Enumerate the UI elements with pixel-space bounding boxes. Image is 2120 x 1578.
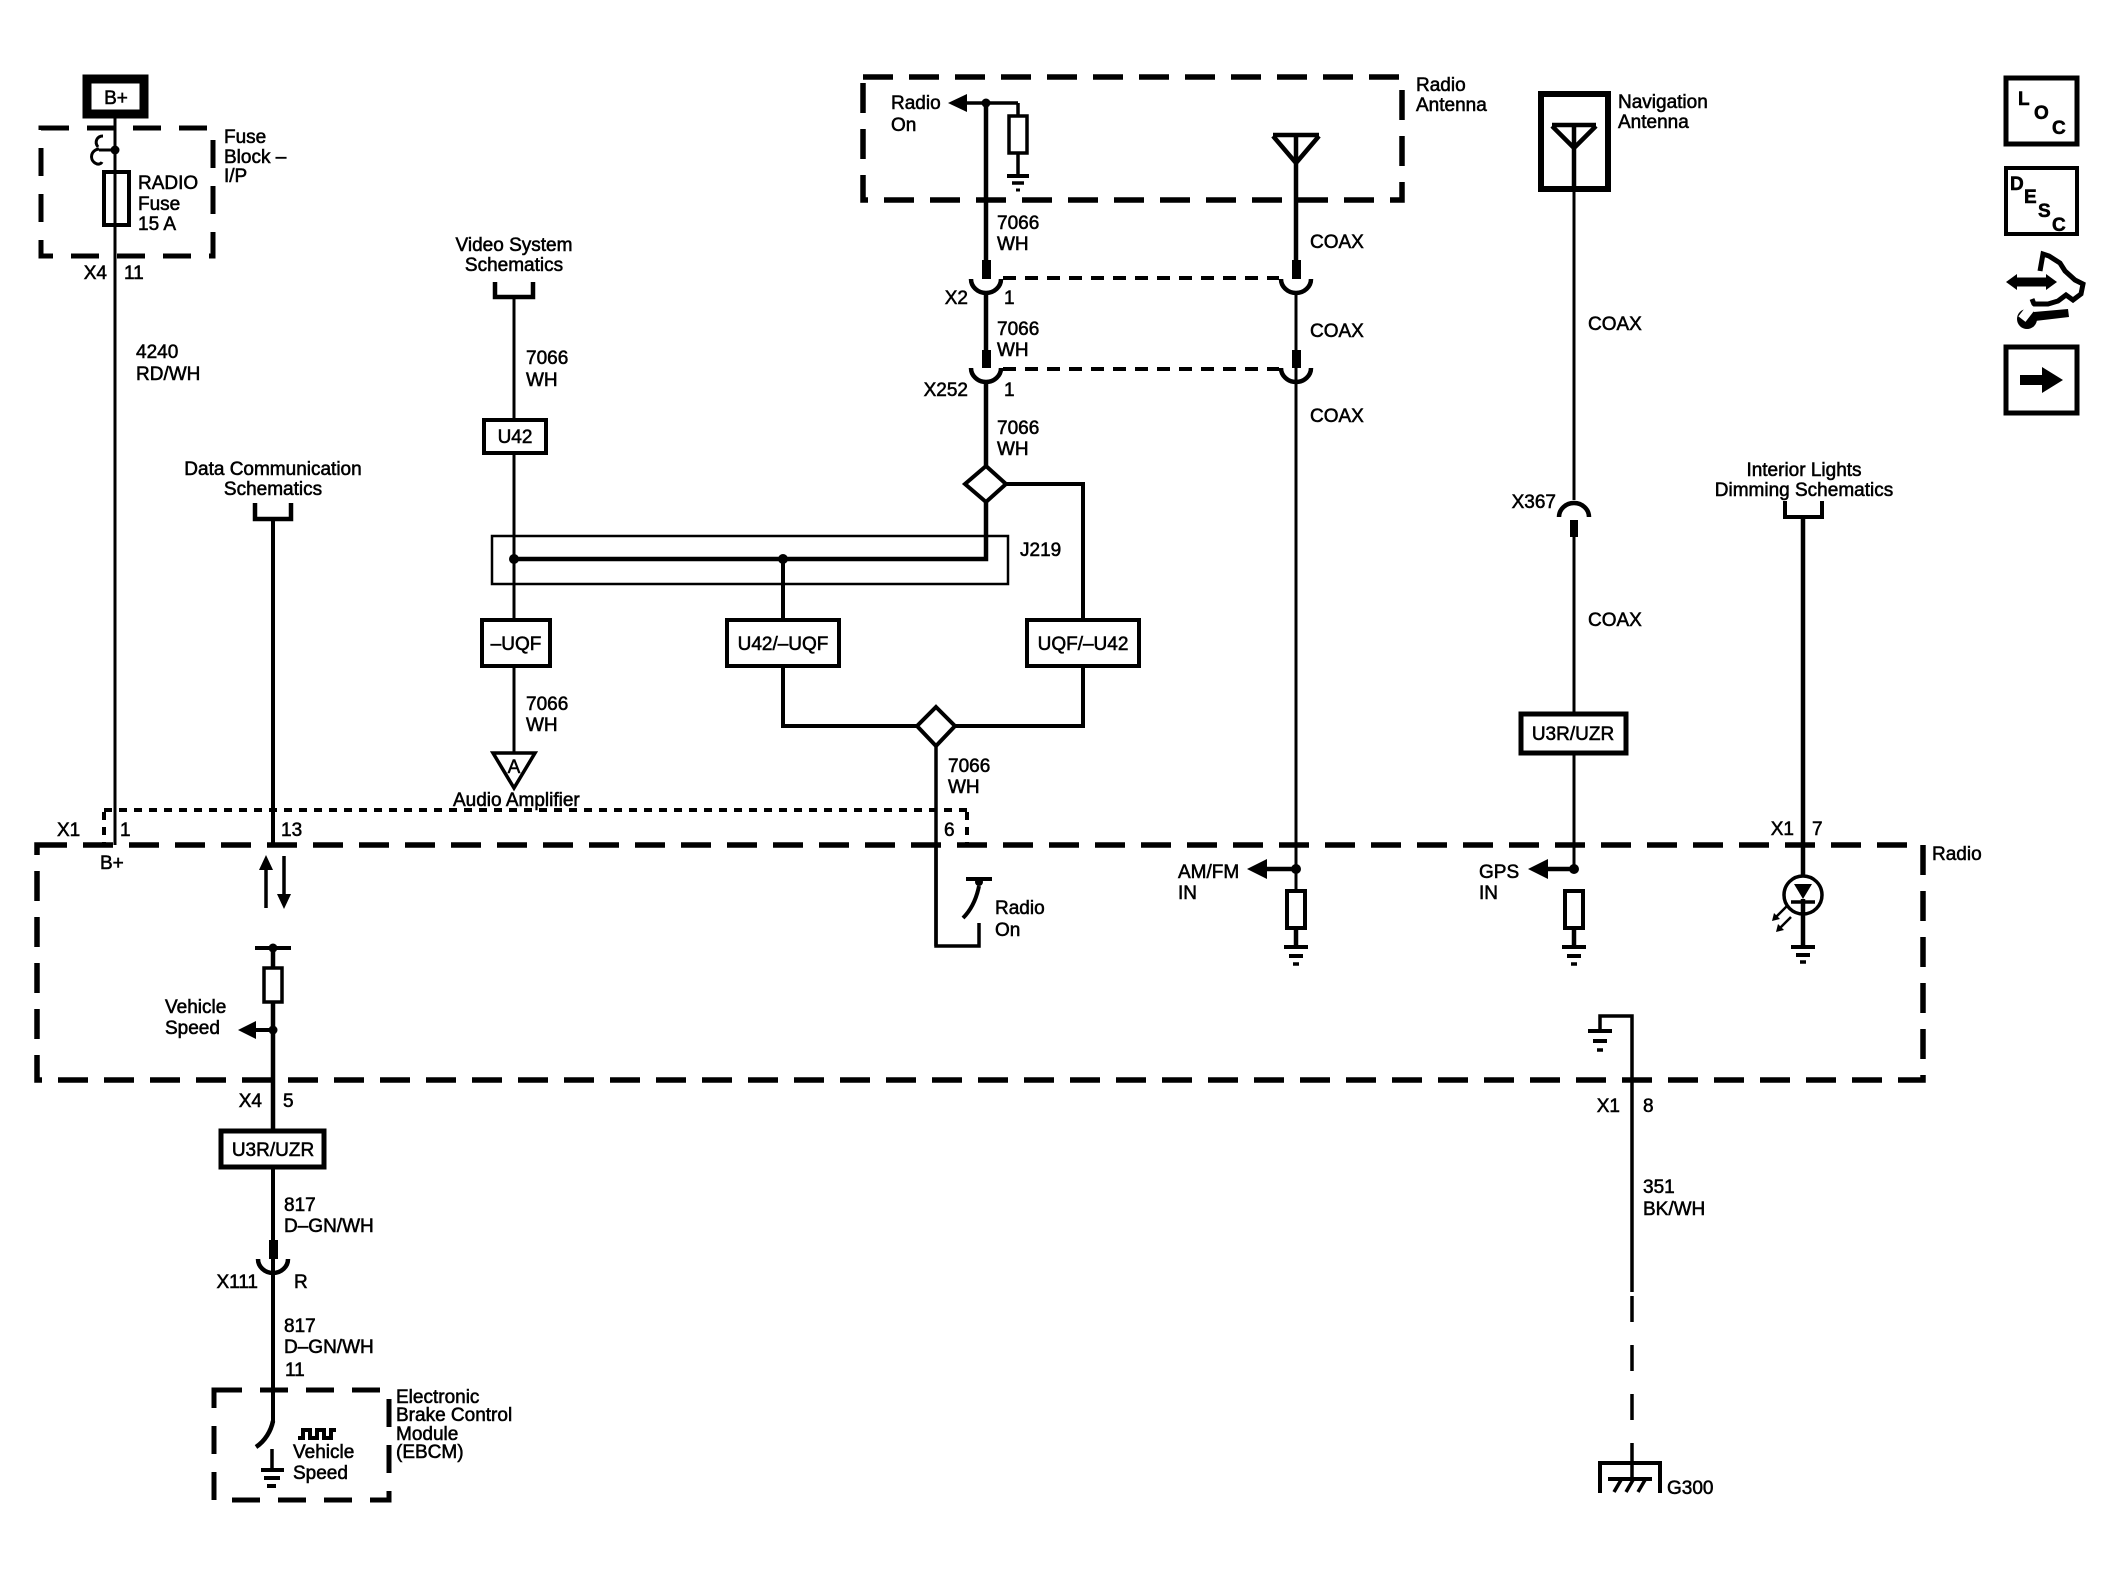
connector X2 (coax pin+socket) bbox=[1281, 260, 1311, 293]
svg-text:COAX: COAX bbox=[1588, 314, 1642, 335]
svg-text:Schematics: Schematics bbox=[465, 255, 563, 276]
svg-text:X2: X2 bbox=[945, 288, 968, 309]
vehicle speed source bar bbox=[255, 944, 291, 969]
svg-text:C: C bbox=[2052, 118, 2066, 139]
wire label 817 D-GN/WH (2) bbox=[284, 1316, 374, 1358]
wire dimming to radio bbox=[1801, 517, 1806, 876]
vehicle speed label (radio) bbox=[165, 997, 226, 1039]
svg-text:C: C bbox=[2052, 215, 2066, 236]
radio on label (antenna box) bbox=[891, 93, 941, 136]
svg-text:S: S bbox=[2038, 201, 2051, 222]
radio-on switch (radio) bbox=[936, 845, 992, 946]
connector X367 bbox=[1512, 492, 1589, 537]
radio dashed box bbox=[37, 845, 1923, 1080]
svg-text:Antenna: Antenna bbox=[1416, 95, 1487, 116]
svg-text:RD/WH: RD/WH bbox=[136, 364, 200, 385]
svg-text:U3R/UZR: U3R/UZR bbox=[1532, 724, 1614, 745]
junction dot at fuse bbox=[111, 146, 120, 155]
wire X2 to X252 bbox=[984, 293, 989, 351]
svg-text:X1: X1 bbox=[1771, 819, 1794, 840]
antenna mast symbol (radio) bbox=[1273, 135, 1319, 260]
radio internal ground bbox=[1588, 1016, 1632, 1080]
junction dot antenna bbox=[982, 99, 991, 108]
ground (EBCM) bbox=[261, 1449, 284, 1486]
wire video to J219 bbox=[513, 297, 516, 620]
radio on label (radio) bbox=[995, 898, 1045, 941]
pin labels X4 5 (radio bottom) bbox=[239, 1091, 294, 1112]
AM/FM IN arrow bbox=[1247, 859, 1301, 879]
icon data link connector (arrows, car, wrench) bbox=[2006, 254, 2083, 329]
svg-text:Navigation: Navigation bbox=[1618, 92, 1708, 113]
svg-text:Audio Amplifier: Audio Amplifier bbox=[453, 790, 580, 811]
wire U3R/UZR to GPS bbox=[1573, 753, 1576, 869]
svg-text:7: 7 bbox=[1812, 819, 1823, 840]
wire resistor to pin X4-5 bbox=[271, 1002, 276, 1131]
svg-text:D–GN/WH: D–GN/WH bbox=[284, 1337, 374, 1358]
svg-text:1: 1 bbox=[120, 820, 131, 841]
wire diamond2 down to radio pin 6 bbox=[934, 746, 938, 946]
U3R/UZR box (speed) bbox=[221, 1131, 324, 1167]
connector X111 bbox=[216, 1240, 307, 1293]
svg-text:E: E bbox=[2024, 187, 2037, 208]
vehicle speed junction + arrow bbox=[238, 1021, 278, 1039]
svg-text:Fuse: Fuse bbox=[224, 127, 266, 148]
svg-text:7066: 7066 bbox=[526, 694, 568, 715]
off-page ref Data Communication Schematics bbox=[184, 459, 361, 519]
AM/FM ground bbox=[1284, 928, 1308, 964]
audio amplifier dotted boundary bbox=[104, 810, 967, 845]
wire label 7066 WH (pin6) bbox=[948, 756, 990, 798]
pin labels X252 1 bbox=[924, 380, 1015, 401]
svg-text:X4: X4 bbox=[239, 1091, 263, 1112]
svg-text:7066: 7066 bbox=[948, 756, 990, 777]
wire label 7066 WH (2) bbox=[997, 319, 1039, 361]
svg-text:D: D bbox=[2010, 174, 2024, 195]
svg-text:Radio: Radio bbox=[891, 93, 941, 114]
resistor (antenna) bbox=[1009, 103, 1027, 174]
svg-text:Vehicle: Vehicle bbox=[293, 1442, 354, 1463]
fuse block internal clip symbol bbox=[92, 136, 115, 164]
svg-text:UQF/–U42: UQF/–U42 bbox=[1038, 634, 1129, 655]
svg-text:BK/WH: BK/WH bbox=[1643, 1199, 1705, 1220]
dashed ground wire bbox=[1630, 1296, 1634, 1452]
wire X252 to splice diamond bbox=[984, 382, 989, 466]
svg-text:Radio: Radio bbox=[1416, 75, 1466, 96]
navigation antenna box bbox=[1541, 94, 1608, 189]
G300 ground bbox=[1600, 1463, 1713, 1499]
B+ terminal box bbox=[87, 79, 144, 114]
svg-text:7066: 7066 bbox=[997, 418, 1039, 439]
svg-text:COAX: COAX bbox=[1310, 321, 1364, 342]
ground (antenna) bbox=[1007, 176, 1029, 190]
wire label 7066 WH bbox=[997, 213, 1039, 255]
svg-text:GPS: GPS bbox=[1479, 862, 1519, 883]
fuse block I/P dashed box bbox=[41, 128, 213, 256]
dashed connector line X2 bbox=[1003, 276, 1279, 280]
wire label 4240 RD/WH bbox=[136, 342, 200, 385]
svg-text:1: 1 bbox=[1004, 380, 1015, 401]
svg-text:4240: 4240 bbox=[136, 342, 178, 363]
dashed connector line X252 bbox=[1003, 367, 1279, 371]
svg-text:Radio: Radio bbox=[995, 898, 1045, 919]
U3R/UZR box (nav) bbox=[1521, 714, 1626, 753]
svg-text:Speed: Speed bbox=[165, 1018, 220, 1039]
AM/FM resistor bbox=[1287, 891, 1305, 928]
svg-text:Brake Control: Brake Control bbox=[396, 1405, 512, 1426]
U42 box bbox=[484, 420, 546, 453]
svg-text:Dimming Schematics: Dimming Schematics bbox=[1715, 480, 1893, 501]
wire label 7066 WH (3) bbox=[997, 418, 1039, 460]
svg-text:Vehicle: Vehicle bbox=[165, 997, 226, 1018]
U42/-UQF box bbox=[727, 620, 839, 666]
svg-text:IN: IN bbox=[1479, 883, 1498, 904]
svg-text:X1: X1 bbox=[57, 820, 80, 841]
radio antenna dashed box bbox=[863, 77, 1402, 200]
-UQF box bbox=[482, 620, 550, 666]
connector X252 (coax pin+socket) bbox=[1281, 350, 1311, 382]
LED dimming input bbox=[1784, 876, 1822, 945]
svg-text:1: 1 bbox=[1004, 288, 1015, 309]
svg-text:I/P: I/P bbox=[224, 166, 247, 187]
pulse waveform icon bbox=[298, 1430, 336, 1438]
pin labels X1 8 bbox=[1597, 1096, 1654, 1117]
GPS IN label bbox=[1479, 862, 1519, 904]
UQF/-U42 box bbox=[1027, 620, 1139, 666]
svg-text:Radio: Radio bbox=[1932, 844, 1982, 865]
off-page ref Video System Schematics bbox=[456, 235, 573, 297]
svg-text:11: 11 bbox=[124, 263, 144, 284]
LED ground bbox=[1791, 947, 1815, 962]
svg-text:AM/FM: AM/FM bbox=[1178, 862, 1239, 883]
svg-text:A: A bbox=[508, 757, 521, 778]
GPS IN arrow bbox=[1528, 859, 1579, 879]
fuse RADIO 15A bbox=[104, 172, 198, 235]
data bidirectional arrows bbox=[259, 855, 291, 909]
svg-text:–UQF: –UQF bbox=[491, 634, 542, 655]
svg-text:U3R/UZR: U3R/UZR bbox=[232, 1140, 314, 1161]
svg-text:WH: WH bbox=[526, 370, 558, 391]
wire data comm to radio bbox=[271, 518, 275, 845]
radio antenna label bbox=[1416, 75, 1487, 116]
svg-text:13: 13 bbox=[281, 820, 302, 841]
svg-text:11: 11 bbox=[285, 1360, 305, 1381]
svg-text:Data Communication: Data Communication bbox=[184, 459, 361, 480]
svg-text:U42/–UQF: U42/–UQF bbox=[738, 634, 829, 655]
connector X2 (left pin+socket) bbox=[971, 260, 1001, 293]
pin X4 11 (fuse block) bbox=[84, 263, 144, 284]
EBCM label bbox=[396, 1387, 512, 1463]
svg-text:RADIO: RADIO bbox=[138, 173, 198, 194]
splice diamond J219 top bbox=[965, 466, 1006, 502]
connector X252 (left pin+socket) bbox=[971, 350, 1001, 382]
svg-text:D–GN/WH: D–GN/WH bbox=[284, 1216, 374, 1237]
svg-text:6: 6 bbox=[944, 820, 955, 841]
svg-text:L: L bbox=[2018, 89, 2030, 110]
AM/FM IN label bbox=[1178, 862, 1239, 904]
wire radio-on down bbox=[984, 103, 989, 261]
svg-text:7066: 7066 bbox=[997, 319, 1039, 340]
svg-text:X4: X4 bbox=[84, 263, 108, 284]
wire U3R/UZR to X111 bbox=[271, 1167, 275, 1423]
radio connector labels X1 1 13 6 bbox=[57, 820, 955, 841]
svg-text:X367: X367 bbox=[1512, 492, 1556, 513]
pin labels X2 1 bbox=[945, 288, 1015, 309]
vehicle speed switch (EBCM) bbox=[256, 1421, 273, 1447]
splice diamond bottom bbox=[917, 707, 955, 746]
svg-text:Interior Lights: Interior Lights bbox=[1746, 460, 1861, 481]
svg-text:U42: U42 bbox=[498, 427, 533, 448]
wire label 7066 WH (video) bbox=[526, 348, 568, 391]
svg-text:J219: J219 bbox=[1020, 540, 1061, 561]
GPS resistor bbox=[1565, 891, 1583, 928]
svg-text:Schematics: Schematics bbox=[224, 479, 322, 500]
wire B+ to radio bbox=[114, 118, 117, 845]
svg-text:WH: WH bbox=[997, 234, 1029, 255]
EBCM dashed box bbox=[214, 1390, 389, 1500]
svg-text:X111: X111 bbox=[216, 1272, 258, 1293]
svg-text:817: 817 bbox=[284, 1316, 316, 1337]
svg-text:B+: B+ bbox=[100, 853, 124, 874]
J219 bus bar bbox=[492, 502, 1008, 584]
svg-text:COAX: COAX bbox=[1588, 610, 1642, 631]
wire label 817 D-GN/WH bbox=[284, 1195, 374, 1237]
svg-text:WH: WH bbox=[997, 340, 1029, 361]
svg-text:X1: X1 bbox=[1597, 1096, 1620, 1117]
svg-text:On: On bbox=[891, 115, 916, 136]
fuse block label bbox=[224, 127, 287, 187]
svg-text:R: R bbox=[294, 1272, 308, 1293]
navigation antenna label bbox=[1618, 92, 1708, 133]
svg-text:Block –: Block – bbox=[224, 147, 287, 168]
svg-text:B+: B+ bbox=[104, 88, 128, 109]
svg-text:5: 5 bbox=[283, 1091, 294, 1112]
svg-text:COAX: COAX bbox=[1310, 406, 1364, 427]
icon LOC box bbox=[2006, 78, 2077, 144]
nav coax wire bbox=[1573, 189, 1576, 500]
GPS ground bbox=[1562, 928, 1586, 964]
svg-text:On: On bbox=[995, 920, 1020, 941]
svg-text:15 A: 15 A bbox=[138, 214, 176, 235]
svg-text:8: 8 bbox=[1643, 1096, 1654, 1117]
ground wire 351 BK/WH bbox=[1630, 1080, 1634, 1292]
svg-text:G300: G300 bbox=[1667, 1478, 1713, 1499]
svg-text:COAX: COAX bbox=[1310, 232, 1364, 253]
svg-text:WH: WH bbox=[526, 715, 558, 736]
wire label 7066 WH (-UQF) bbox=[526, 694, 568, 736]
svg-text:(EBCM): (EBCM) bbox=[396, 1442, 464, 1463]
svg-text:Speed: Speed bbox=[293, 1463, 348, 1484]
coax wire down bbox=[1295, 293, 1298, 891]
vehicle speed resistor bbox=[264, 968, 282, 1002]
svg-text:Fuse: Fuse bbox=[138, 194, 180, 215]
nav coax wire 2 bbox=[1573, 537, 1576, 714]
svg-text:O: O bbox=[2034, 103, 2049, 124]
audio amplifier off-page triangle A bbox=[493, 753, 535, 788]
svg-text:X252: X252 bbox=[924, 380, 968, 401]
radio on output arrow bbox=[948, 94, 1018, 112]
svg-text:WH: WH bbox=[997, 439, 1029, 460]
svg-text:WH: WH bbox=[948, 777, 980, 798]
svg-text:Antenna: Antenna bbox=[1618, 112, 1689, 133]
wire J219 to U42/-UQF to diamond2 bbox=[783, 559, 917, 726]
svg-text:351: 351 bbox=[1643, 1177, 1675, 1198]
svg-text:7066: 7066 bbox=[526, 348, 568, 369]
vehicle speed label (EBCM) bbox=[293, 1442, 354, 1484]
LED light arrows bbox=[1772, 906, 1791, 932]
interior lights off-page ref bbox=[1715, 460, 1893, 517]
svg-text:Video System: Video System bbox=[456, 235, 573, 256]
pin labels X1 7 bbox=[1771, 819, 1823, 840]
svg-text:817: 817 bbox=[284, 1195, 316, 1216]
svg-text:IN: IN bbox=[1178, 883, 1197, 904]
wire diamond to UQF/-U42 bbox=[955, 484, 1083, 726]
icon DESC box bbox=[2006, 168, 2077, 236]
wire -UQF to audio amp bbox=[513, 666, 516, 753]
svg-text:7066: 7066 bbox=[997, 213, 1039, 234]
icon forward arrow box bbox=[2006, 347, 2077, 413]
